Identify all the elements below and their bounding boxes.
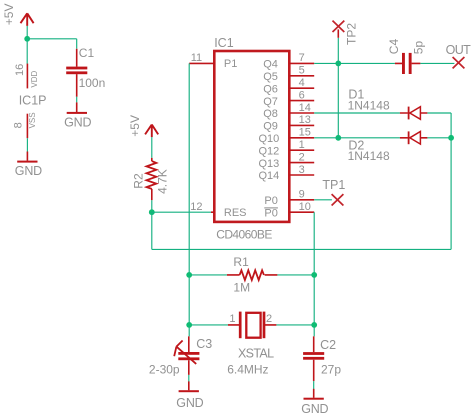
svg-text:Q12: Q12 [259,145,280,157]
pin 6 stub (Q7) [289,100,314,102]
pin 9 stub (P0) [289,199,314,201]
pin 4 stub (Q6) [289,87,314,89]
svg-text:13: 13 [299,114,311,126]
wire R2 bottom to RES junction [151,200,153,212]
svg-text:VDD: VDD [30,70,39,87]
svg-text:16: 16 [14,64,26,76]
svg-text:1N4148: 1N4148 [348,99,390,113]
node junction XSTAL left [186,322,192,328]
svg-text:IC1: IC1 [214,36,234,50]
wire XSTAL right to junction [276,324,314,326]
test point OUT [453,57,465,68]
svg-text:XSTAL: XSTAL [238,347,274,361]
ic power part IC1P pin 8 VSS [26,114,28,138]
svg-text:Q13: Q13 [259,158,280,170]
svg-text:14: 14 [299,102,311,114]
svg-text:2-30p: 2-30p [149,363,180,377]
svg-text:C2: C2 [320,338,336,352]
ground under VSS [17,152,37,163]
svg-text:5p: 5p [412,41,426,55]
svg-text:4: 4 [299,77,305,89]
wire junction to C1 (horizontal) [27,38,77,40]
supply symbol +5V (top-left) [21,13,34,26]
overline of pin name P0- [264,207,278,209]
svg-text:1N4148: 1N4148 [348,149,390,163]
svg-text:3: 3 [299,164,305,176]
wire P1 net vertical (pin11 to XSTAL/C3 column) [188,63,190,336]
wire pin10/P0- down to R1/XSTAL/C2 column [313,212,315,336]
svg-text:12: 12 [190,201,202,213]
svg-text:VSS: VSS [28,112,37,128]
resistor R2 (vertical zigzag) [147,158,157,200]
svg-text:P0: P0 [264,195,277,207]
svg-text:C4: C4 [387,39,401,55]
wire D1 to right vertical [427,112,451,114]
svg-text:5: 5 [299,65,305,77]
svg-text:OUT: OUT [446,43,472,57]
node junction D2/right vertical [448,135,454,141]
svg-text:6: 6 [299,89,305,101]
ground under C3 [179,381,199,392]
svg-text:GND: GND [15,164,42,178]
pin 11 stub (P1) [189,62,214,64]
svg-text:R1: R1 [233,255,249,269]
svg-text:1M: 1M [233,280,250,294]
node junction +5V/C1 [24,36,30,42]
ground under C1 [67,102,87,114]
capacitor C2 [303,336,324,381]
pin lead of TP2 [337,29,339,37]
wire Q10/pin15 to D2 [314,137,400,139]
wire +5V stem to junction [26,26,28,39]
svg-text:2: 2 [266,313,272,325]
test point TP1 [332,194,344,205]
svg-text:8: 8 [13,122,25,128]
diode D2 [400,131,428,144]
svg-text:2: 2 [299,151,305,163]
wire D2 to right vertical [427,137,451,139]
diode D1 [400,107,428,120]
wire VSS to GND [26,138,28,151]
svg-text:Q9: Q9 [263,121,278,133]
svg-text:1: 1 [229,313,235,325]
svg-text:15: 15 [299,127,311,139]
supply symbol +5V (above R2) [145,125,158,138]
wire RES net horizontal to pin 12 [152,211,211,213]
svg-text:Q8: Q8 [263,108,278,120]
pin 2 stub (Q13) [289,162,314,164]
pin 13 stub (Q9) [289,124,314,126]
svg-text:11: 11 [191,52,202,64]
resistor R1 (horizontal zigzag) [227,270,278,280]
svg-text:TP1: TP1 [322,178,345,192]
right-side pin stubs Q4..Q14,P0,P0- [289,63,314,212]
svg-text:6.4MHz: 6.4MHz [227,363,268,377]
wire XSTAL left to junction [189,324,228,326]
svg-text:7: 7 [299,52,305,64]
svg-text:C1: C1 [79,46,95,60]
wire R1 left to junction [189,274,227,276]
wire TP2 junction up to TP2 [337,38,339,64]
svg-text:P1: P1 [224,58,237,70]
svg-text:+5V: +5V [128,115,142,137]
node junction Q10 row [335,135,341,141]
svg-text:GND: GND [301,402,328,416]
svg-text:Q5: Q5 [263,71,278,83]
svg-text:1: 1 [299,139,305,151]
svg-text:CD4060BE: CD4060BE [216,228,272,242]
svg-text:4.7K: 4.7K [156,169,170,194]
node junction XSTAL right [311,322,317,328]
svg-text:27p: 27p [321,363,341,377]
wire long bottom horizontal [152,248,451,250]
pin 12 stub (RES) [211,211,214,213]
wire C2 to GND [313,381,315,389]
pin 14 stub (Q8) [289,112,314,114]
svg-text:IC1P: IC1P [19,93,47,107]
svg-text:100n: 100n [79,76,106,90]
crystal XSTAL [228,312,277,339]
wire Q4/pin7 to TP2 junction and C4 [314,62,395,64]
pin 5 stub (Q5) [289,75,314,77]
wire pin9 to TP1 [314,199,332,201]
pin 10 stub (P0-) [289,211,314,213]
svg-text:P0: P0 [264,207,277,219]
svg-text:10: 10 [299,201,311,213]
svg-text:GND: GND [64,116,91,130]
svg-text:C3: C3 [196,337,212,351]
pin 15 stub (Q10) [289,137,314,139]
svg-text:RES: RES [224,207,247,219]
ic power part IC1P pin 16 VDD [26,64,28,89]
svg-text:Q6: Q6 [263,83,278,95]
capacitor C1 [66,49,87,97]
test point TP2 [333,21,345,32]
svg-text:GND: GND [176,396,203,410]
node junction R1 left [186,272,192,278]
node junction R1 right [311,272,317,278]
wire R1 right to junction [277,274,314,276]
capacitor C4 (series, vertical plates) [395,53,421,74]
wire right vertical up to diodes [450,113,452,249]
wire C1 bottom to GND [76,97,78,103]
wire junction down to Q10 row [337,63,339,137]
svg-text:9: 9 [299,189,305,201]
svg-text:Q7: Q7 [263,96,278,108]
wire junction down to VDD pin [26,39,28,64]
trimmer capacitor C3 [174,336,199,375]
node junction TP2/Q4 [335,61,341,67]
wire RES net vertical down [151,212,153,249]
IC IC1 body (CD4060BE) [214,51,289,222]
svg-text:Q14: Q14 [259,170,280,182]
pin 7 stub (Q4) [289,62,314,64]
ground under C2 [304,389,324,400]
pin 3 stub (Q14) [289,174,314,176]
svg-text:R2: R2 [132,173,146,189]
node junction R2/RES [149,209,155,215]
svg-text:Q10: Q10 [259,133,280,145]
wire C3 to GND [188,375,190,382]
svg-text:+5V: +5V [2,4,16,26]
wire C1 top drop [76,39,78,49]
pin 1 stub (Q12) [289,149,314,151]
svg-text:Q4: Q4 [263,59,278,71]
wire +5V to R2 [151,137,153,158]
wire Q8/pin14 to D1 [314,112,400,114]
svg-text:TP2: TP2 [345,23,359,45]
wire C4 to OUT [420,62,454,64]
